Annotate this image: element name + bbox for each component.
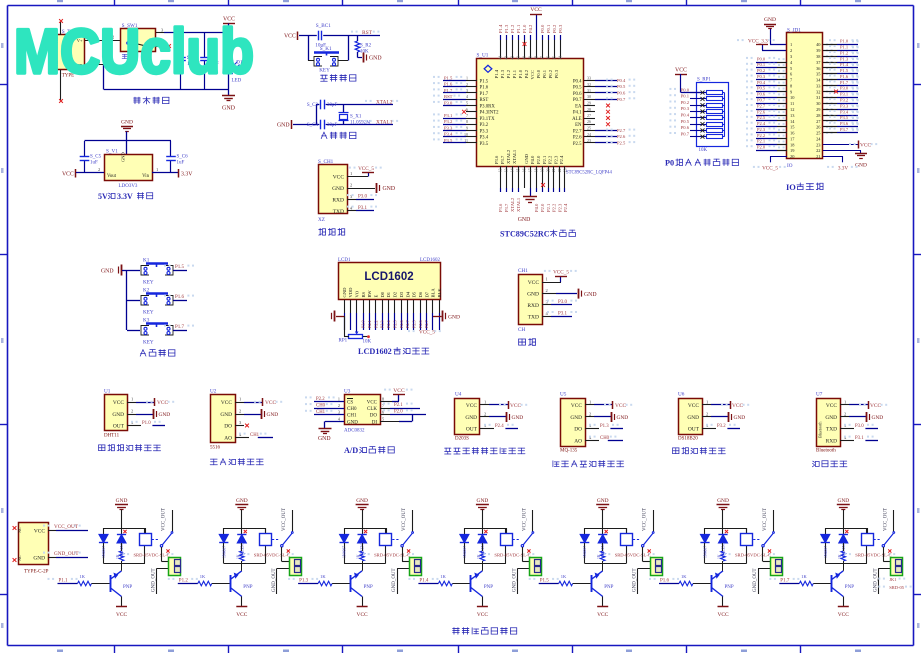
svg-text:P2.2: P2.2 (373, 320, 378, 328)
svg-text:OUT: OUT (113, 424, 125, 430)
svg-text:GND_OUT: GND_OUT (54, 551, 79, 557)
svg-text:P0.4: P0.4 (617, 78, 626, 83)
svg-text:P2.4: P2.4 (559, 155, 564, 164)
svg-text:P2.7: P2.7 (757, 103, 766, 108)
svg-text:17: 17 (529, 168, 533, 172)
svg-text:P2.1: P2.1 (757, 139, 765, 144)
svg-text:P3.1: P3.1 (840, 92, 848, 97)
svg-text:15: 15 (517, 168, 521, 172)
svg-text:P1.1: P1.1 (512, 69, 517, 78)
svg-text:1N4007: 1N4007 (824, 546, 828, 558)
svg-text:P1.7: P1.7 (175, 325, 185, 330)
svg-text:P4.0: P4.0 (534, 203, 539, 212)
svg-text:TXD: TXD (826, 427, 837, 433)
svg-text:P0.7: P0.7 (617, 97, 626, 102)
svg-text:2: 2 (546, 288, 548, 293)
svg-text:P4.0: P4.0 (530, 155, 535, 164)
svg-text:GND: GND (236, 498, 248, 504)
svg-text:KEY: KEY (143, 280, 154, 286)
svg-text:2: 2 (98, 167, 100, 172)
svg-text:GND: GND (121, 152, 126, 162)
svg-text:P3.1: P3.1 (444, 113, 453, 118)
svg-text:8: 8 (466, 119, 468, 124)
svg-text:GND: GND (277, 123, 290, 129)
svg-text:GND: GND (512, 415, 524, 421)
svg-text:P3.4: P3.4 (444, 132, 453, 137)
svg-text:2: 2 (466, 82, 468, 87)
svg-text:S_R2: S_R2 (360, 44, 372, 49)
svg-text:P1.1: P1.1 (59, 578, 69, 583)
svg-text:39: 39 (529, 56, 533, 60)
svg-text:9: 9 (466, 126, 468, 131)
svg-text:TXD: TXD (333, 209, 344, 215)
svg-text:VCC: VCC (62, 171, 74, 177)
svg-text:TYPE-C-2P: TYPE-C-2P (24, 570, 49, 575)
svg-text:1: 1 (790, 42, 792, 47)
svg-text:NC: NC (17, 527, 22, 533)
svg-text:4: 4 (466, 94, 468, 99)
svg-text:1: 1 (466, 76, 468, 81)
svg-text:GND_OUT: GND_OUT (753, 568, 758, 592)
svg-text:GND: GND (717, 498, 729, 504)
svg-text:13: 13 (505, 168, 509, 172)
svg-text:P1.0: P1.0 (840, 39, 849, 44)
svg-text:1N4007: 1N4007 (102, 546, 106, 558)
svg-text:3.3V: 3.3V (117, 192, 133, 201)
svg-text:1K: 1K (200, 574, 206, 579)
svg-text:P1.3: P1.3 (600, 424, 609, 429)
svg-text:CH1: CH1 (316, 410, 326, 415)
svg-text:P1.0: P1.0 (522, 24, 527, 33)
svg-text:P2.0: P2.0 (540, 203, 545, 212)
svg-text:6: 6 (466, 107, 468, 112)
svg-text:S_C3: S_C3 (307, 103, 319, 108)
svg-text:D2: D2 (393, 291, 398, 297)
svg-text:PNP: PNP (364, 585, 373, 590)
svg-text:30pF: 30pF (327, 103, 338, 108)
svg-text:P0.5: P0.5 (681, 119, 690, 124)
svg-text:1K: 1K (357, 554, 361, 559)
svg-text:2: 2 (790, 48, 792, 53)
svg-text:P4.1: P4.1 (573, 111, 582, 116)
svg-text:S_X1: S_X1 (350, 115, 362, 120)
svg-text:LDO3V3: LDO3V3 (119, 184, 138, 189)
svg-text:P0.2: P0.2 (548, 69, 553, 78)
svg-text:S_JD1: S_JD1 (787, 28, 801, 34)
svg-text:P1.3: P1.3 (504, 24, 509, 33)
svg-text:VCC: VCC (597, 612, 608, 618)
svg-text:P2.6: P2.6 (399, 320, 404, 328)
svg-text:P1.0: P1.0 (142, 421, 151, 426)
svg-text:STC89C52RC_LQFP44: STC89C52RC_LQFP44 (566, 171, 613, 176)
svg-text:GND: GND (477, 498, 489, 504)
svg-text:RW: RW (367, 290, 372, 298)
svg-text:PNP: PNP (725, 585, 734, 590)
svg-text:23: 23 (587, 138, 591, 143)
svg-text:2: 2 (239, 409, 241, 414)
svg-text:1: 1 (546, 277, 548, 282)
svg-text:P3.2: P3.2 (480, 123, 489, 128)
svg-text:PNP: PNP (604, 585, 613, 590)
svg-text:P2.6: P2.6 (617, 134, 626, 139)
svg-text:U6: U6 (678, 392, 685, 398)
svg-text:P1.0: P1.0 (518, 69, 523, 78)
svg-text:P3.1: P3.1 (358, 206, 368, 211)
svg-text:P0.0: P0.0 (540, 24, 545, 33)
svg-text:P3.4: P3.4 (480, 136, 489, 141)
svg-text:VCC: VCC (393, 388, 405, 394)
svg-text:MQ-135: MQ-135 (560, 449, 578, 454)
svg-text:VCC: VCC (34, 529, 45, 535)
svg-text:P1.2: P1.2 (506, 69, 511, 78)
svg-text:KEY: KEY (143, 340, 154, 346)
svg-text:RST: RST (362, 30, 373, 36)
svg-text:S_BC1: S_BC1 (316, 23, 331, 29)
svg-text:D4: D4 (405, 291, 410, 297)
svg-text:VCC: VCC (860, 143, 871, 149)
svg-text:VCC: VCC (528, 280, 540, 286)
svg-text:U4: U4 (455, 392, 462, 398)
svg-text:GND: GND (687, 415, 699, 421)
svg-text:GND: GND (383, 186, 396, 192)
svg-text:1N4007: 1N4007 (343, 546, 347, 558)
svg-text:GND: GND (872, 415, 884, 421)
svg-text:VCC: VCC (357, 612, 368, 618)
svg-text:19: 19 (541, 168, 545, 172)
svg-text:RXD: RXD (332, 198, 344, 204)
svg-text:GND_OUT: GND_OUT (512, 568, 517, 592)
svg-text:RP1: RP1 (339, 339, 348, 344)
svg-text:GND_OUT: GND_OUT (272, 568, 277, 592)
svg-text:P3.6: P3.6 (498, 203, 503, 212)
svg-text:VCC_5: VCC_5 (358, 166, 374, 172)
svg-text:P2.1: P2.1 (546, 203, 551, 212)
svg-text:EN: EN (575, 123, 582, 128)
svg-text:VCC: VCC (826, 403, 837, 409)
svg-text:GND: GND (570, 415, 582, 421)
svg-text:14: 14 (511, 168, 515, 172)
svg-text:P1.7: P1.7 (480, 92, 489, 97)
svg-text:GND: GND (116, 498, 128, 504)
svg-text:K1: K1 (143, 258, 150, 264)
svg-text:5: 5 (466, 101, 468, 106)
svg-text:P0.6: P0.6 (617, 91, 626, 96)
svg-text:GND: GND (825, 415, 837, 421)
svg-text:P0.3: P0.3 (558, 24, 563, 33)
svg-text:1: 1 (484, 400, 486, 405)
svg-text:2: 2 (589, 412, 591, 417)
svg-text:P2.7: P2.7 (424, 320, 429, 328)
svg-text:AO: AO (224, 435, 232, 441)
svg-text:P1.3: P1.3 (500, 69, 505, 78)
svg-text:28: 28 (587, 107, 591, 112)
svg-text:A/D: A/D (344, 446, 358, 455)
svg-text:KEY: KEY (319, 68, 330, 74)
svg-text:VCC_OUT: VCC_OUT (522, 508, 527, 531)
svg-text:VCC: VCC (284, 34, 296, 40)
svg-text:DHT11: DHT11 (104, 434, 120, 439)
svg-text:P3.7: P3.7 (504, 203, 509, 212)
svg-text:1: 1 (706, 400, 708, 405)
svg-text:P3.7: P3.7 (500, 155, 505, 164)
svg-text:P2.1: P2.1 (394, 403, 403, 408)
svg-text:P4.2: P4.2 (524, 69, 529, 78)
svg-text:ADC0832: ADC0832 (344, 429, 365, 434)
svg-text:P2.2: P2.2 (757, 133, 765, 138)
svg-text:7: 7 (466, 113, 468, 118)
svg-text:P1.7: P1.7 (780, 578, 790, 583)
svg-text:U5: U5 (560, 392, 567, 398)
svg-text:26: 26 (587, 119, 591, 124)
svg-text:P0.6: P0.6 (757, 92, 766, 97)
svg-text:STC89C52RC: STC89C52RC (500, 230, 550, 239)
svg-text:16: 16 (523, 168, 527, 172)
svg-text:DS18B20: DS18B20 (678, 437, 698, 442)
svg-text:D7: D7 (424, 291, 429, 297)
svg-text:P0.3: P0.3 (681, 106, 690, 111)
svg-text:P0.1: P0.1 (681, 94, 690, 99)
svg-text:VCC_OUT: VCC_OUT (883, 508, 888, 531)
svg-text:P2.1: P2.1 (367, 320, 372, 328)
svg-text:P2.2: P2.2 (551, 203, 556, 212)
svg-text:P3.0: P3.0 (840, 86, 849, 91)
svg-text:P1.5: P1.5 (480, 79, 489, 84)
svg-text:P1.1: P1.1 (840, 45, 848, 50)
svg-text:1N4007: 1N4007 (704, 546, 708, 558)
svg-text:P1.6: P1.6 (175, 295, 185, 300)
svg-text:GND: GND (734, 415, 746, 421)
svg-text:32: 32 (587, 82, 591, 87)
svg-text:NC: NC (17, 555, 22, 561)
svg-text:P3.3: P3.3 (840, 103, 849, 108)
svg-text:P3.1TX: P3.1TX (480, 117, 496, 122)
svg-text:VCC: VCC (838, 612, 849, 618)
svg-text:31: 31 (816, 95, 820, 100)
svg-text:VCC: VCC (615, 403, 626, 409)
svg-text:XTAL2: XTAL2 (376, 99, 393, 105)
svg-text:SRD-05VDC-SL-C: SRD-05VDC-SL-C (134, 553, 170, 558)
svg-text:P0.0: P0.0 (681, 87, 690, 92)
svg-text:2: 2 (484, 412, 486, 417)
svg-text:Vin: Vin (142, 174, 150, 179)
svg-text:P2.3: P2.3 (557, 203, 562, 212)
svg-text:P3.2: P3.2 (840, 98, 848, 103)
svg-text:GND: GND (318, 436, 331, 442)
svg-text:P3.4: P3.4 (840, 109, 849, 114)
svg-text:P0.2: P0.2 (552, 24, 557, 33)
svg-text:ALE: ALE (572, 117, 581, 122)
svg-text:S_C5: S_C5 (90, 155, 102, 160)
svg-text:P3.5: P3.5 (480, 142, 489, 147)
svg-text:P2.2: P2.2 (548, 155, 553, 164)
svg-text:P0.1: P0.1 (757, 62, 765, 67)
svg-text:P3.3: P3.3 (444, 125, 453, 130)
svg-text:GND: GND (101, 268, 114, 274)
svg-text:IO: IO (787, 163, 793, 169)
svg-text:P3.0: P3.0 (855, 424, 864, 429)
svg-text:P2.3: P2.3 (554, 155, 559, 164)
svg-text:S_V1: S_V1 (106, 149, 118, 155)
svg-text:SRD-05VDC-SL-C: SRD-05VDC-SL-C (735, 553, 771, 558)
svg-text:P1.4: P1.4 (494, 69, 499, 78)
svg-text:VCC: VCC (688, 403, 699, 409)
svg-text:40: 40 (523, 56, 527, 60)
svg-text:GND: GND (112, 412, 124, 418)
svg-text:PNP: PNP (484, 585, 493, 590)
svg-text:GND_OUT: GND_OUT (392, 568, 397, 592)
svg-text:P0.6: P0.6 (681, 125, 690, 130)
svg-text:Vout: Vout (107, 174, 117, 179)
svg-text:P0.6: P0.6 (573, 92, 582, 97)
svg-text:S_C6: S_C6 (177, 155, 189, 160)
svg-text:1: 1 (338, 396, 340, 401)
svg-text:P1.2: P1.2 (840, 50, 848, 55)
svg-text:5516: 5516 (210, 446, 221, 451)
svg-text:VCC_OUT: VCC_OUT (402, 508, 407, 531)
svg-text:VCC_5: VCC_5 (553, 269, 569, 275)
svg-text:P2.5: P2.5 (573, 142, 582, 147)
svg-text:P2.4: P2.4 (495, 424, 504, 429)
svg-text:LCD1602: LCD1602 (358, 347, 392, 356)
svg-text:SRD-05VDC-SL-C: SRD-05VDC-SL-C (615, 553, 651, 558)
svg-text:VCC: VCC (717, 612, 728, 618)
svg-text:S_CH1: S_CH1 (318, 159, 334, 165)
svg-text:U7: U7 (816, 392, 823, 398)
svg-text:1K: 1K (718, 554, 722, 559)
svg-text:RS: RS (361, 291, 366, 297)
svg-text:GND: GND (121, 120, 133, 126)
svg-text:VCC: VCC (466, 403, 477, 409)
svg-text:P2.5: P2.5 (617, 141, 626, 146)
svg-text:25: 25 (587, 126, 591, 131)
svg-text:U3: U3 (344, 389, 351, 395)
svg-text:RXD: RXD (826, 438, 837, 444)
svg-text:VCC_OUT: VCC_OUT (54, 524, 79, 530)
svg-text:VCC_3.3: VCC_3.3 (748, 39, 768, 45)
svg-text:1K: 1K (80, 574, 86, 579)
svg-text:GND: GND (524, 153, 529, 164)
svg-text:VDD: VDD (348, 287, 353, 298)
svg-text:VCC: VCC (221, 400, 232, 406)
svg-text:LCD1602: LCD1602 (420, 258, 441, 263)
svg-text:P3.1: P3.1 (855, 436, 864, 441)
svg-text:D203S: D203S (455, 437, 469, 442)
svg-text:37: 37 (541, 56, 545, 60)
svg-text:K3: K3 (143, 318, 150, 324)
svg-text:P3.5: P3.5 (840, 115, 849, 120)
svg-text:1K: 1K (838, 554, 842, 559)
svg-text:OUT: OUT (466, 427, 478, 433)
svg-text:P2.7: P2.7 (573, 129, 582, 134)
svg-text:P2.5: P2.5 (412, 320, 417, 328)
svg-text:D5: D5 (412, 291, 417, 297)
svg-text:GND: GND (267, 412, 279, 418)
svg-text:P0.5: P0.5 (573, 86, 582, 91)
svg-text:P3.3: P3.3 (480, 129, 489, 134)
svg-text:P1.7: P1.7 (444, 88, 453, 93)
svg-text:P1.6: P1.6 (660, 578, 670, 583)
svg-text:VCC_OUT: VCC_OUT (763, 508, 768, 531)
svg-text:KEY: KEY (143, 310, 154, 316)
svg-text:P2.6: P2.6 (757, 109, 766, 114)
svg-text:P3.0: P3.0 (358, 195, 368, 200)
svg-text:1K: 1K (236, 554, 240, 559)
svg-text:S_U1: S_U1 (477, 53, 489, 59)
svg-text:MCUclub: MCUclub (14, 17, 254, 87)
svg-text:GND: GND (518, 217, 531, 223)
svg-text:P4.3INT2: P4.3INT2 (480, 111, 500, 116)
svg-text:VCC: VCC (265, 400, 276, 406)
svg-text:Bluetooth: Bluetooth (818, 421, 823, 438)
svg-text:30pF: 30pF (327, 123, 338, 128)
svg-text:P2.3: P2.3 (380, 320, 385, 328)
svg-text:GND_OUT: GND_OUT (873, 568, 878, 592)
svg-text:XTAL1: XTAL1 (376, 119, 393, 125)
svg-text:P0.4: P0.4 (573, 79, 582, 84)
svg-text:K2: K2 (143, 288, 150, 294)
svg-text:CH1: CH1 (347, 414, 357, 419)
svg-text:AO: AO (574, 438, 582, 444)
svg-text:29: 29 (587, 101, 591, 106)
svg-text:RST: RST (480, 98, 489, 103)
svg-text:P2.7: P2.7 (405, 320, 410, 328)
svg-text:SRD-05VDC-SL-C: SRD-05VDC-SL-C (254, 553, 290, 558)
svg-text:P0.5: P0.5 (617, 84, 626, 89)
svg-text:VCC_5: VCC_5 (762, 165, 778, 171)
svg-text:S_K1: S_K1 (320, 46, 332, 52)
svg-text:BLA: BLA (431, 288, 436, 298)
svg-text:1N4007: 1N4007 (583, 546, 587, 558)
svg-text:TXD: TXD (528, 314, 539, 320)
svg-text:GND: GND (332, 186, 344, 192)
svg-text:JK1: JK1 (889, 577, 896, 582)
svg-text:P0.4: P0.4 (757, 80, 766, 85)
svg-text:PNP: PNP (243, 585, 252, 590)
svg-text:8: 8 (382, 396, 384, 401)
svg-text:GND: GND (342, 287, 347, 298)
svg-text:VCC: VCC (367, 400, 378, 405)
svg-text:1: 1 (350, 171, 352, 176)
svg-text:2: 2 (131, 409, 133, 414)
svg-text:GND: GND (159, 412, 171, 418)
svg-text:23: 23 (564, 168, 568, 172)
svg-text:P0.2: P0.2 (681, 100, 690, 105)
svg-text:P0.7: P0.7 (681, 131, 690, 136)
svg-text:GND: GND (369, 56, 382, 62)
svg-text:11: 11 (790, 101, 794, 106)
svg-text:GND: GND (527, 292, 539, 298)
svg-text:P2.6: P2.6 (573, 136, 582, 141)
svg-text:SRD-05VDC-SL-C: SRD-05VDC-SL-C (855, 553, 891, 558)
svg-text:P3.6: P3.6 (494, 155, 499, 164)
svg-text:P0: P0 (665, 159, 674, 168)
svg-text:CH1: CH1 (518, 268, 528, 274)
svg-text:P2.7: P2.7 (617, 128, 626, 133)
svg-text:P0.1: P0.1 (546, 24, 551, 33)
svg-text:VCC: VCC (870, 403, 881, 409)
svg-text:3: 3 (466, 88, 468, 93)
svg-text:XTAL2: XTAL2 (506, 149, 511, 164)
svg-text:VCC: VCC (477, 612, 488, 618)
svg-text:D6: D6 (418, 291, 423, 297)
svg-text:VCC_OUT: VCC_OUT (282, 508, 287, 531)
svg-text:2: 2 (706, 412, 708, 417)
svg-text:GND: GND (356, 498, 368, 504)
svg-text:IO: IO (786, 182, 796, 192)
svg-text:VCC: VCC (116, 612, 127, 618)
svg-text:DI: DI (372, 420, 378, 425)
svg-text:P3.5: P3.5 (444, 138, 453, 143)
